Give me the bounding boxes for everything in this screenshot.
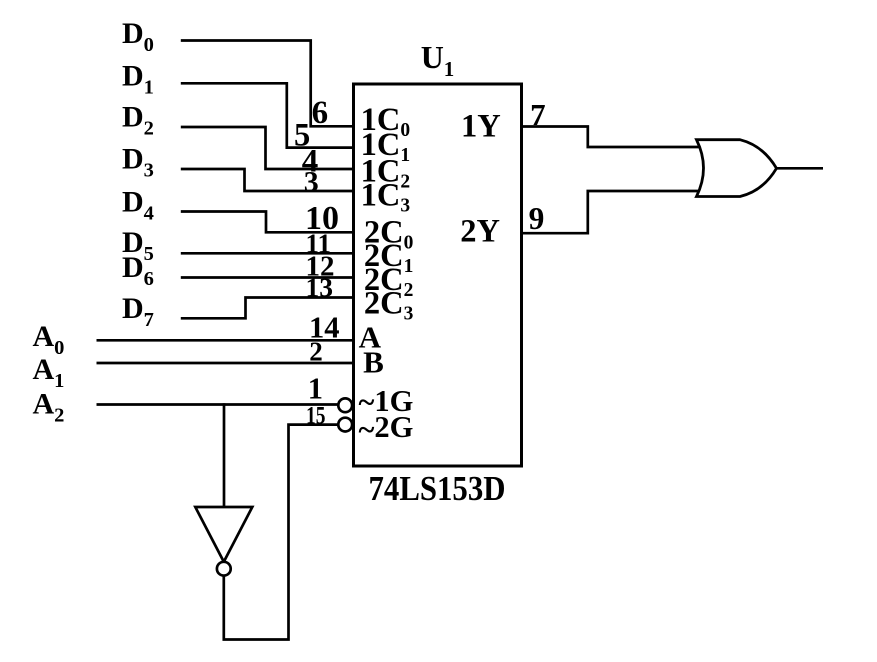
wire D2 to pin 4 [181,127,352,169]
svg-text:13: 13 [306,271,334,302]
wire D6 to pin 12 [181,276,352,279]
pin number 12 [306,250,335,282]
label D0 [122,17,154,56]
wire D7 to pin 13 [181,298,352,319]
pin number 13 [306,271,334,302]
svg-text:9: 9 [529,201,545,236]
svg-text:B: B [363,345,384,380]
pin name B [363,345,384,380]
OR gate U3 [697,140,777,197]
pin number 11 [306,229,332,259]
pin number 3 [304,166,319,199]
pin number 14 [309,311,340,345]
pin number 6 [312,95,329,131]
pin number 5 [294,118,310,154]
svg-text:2Y: 2Y [460,214,500,250]
pin name ~1G [359,384,414,419]
svg-text:~2G: ~2G [359,410,414,447]
pin number 15 [306,403,326,430]
label A0 [33,320,65,359]
svg-text:7: 7 [530,97,546,132]
wire D4 to pin 10 [181,212,352,233]
svg-text:1Y: 1Y [461,108,501,144]
pin number 10 [305,200,339,237]
label D5 [122,226,154,265]
pin name 2C3 [364,286,414,325]
svg-text:74LS153D: 74LS153D [369,469,506,508]
label A2 [33,387,65,426]
wire D5 to pin 11 [181,252,352,255]
label D7 [122,292,154,331]
pin number 1 [308,372,323,406]
wire A0 to pin 14 [97,339,353,342]
svg-text:6: 6 [312,95,329,131]
label D3 [122,143,154,182]
label D4 [122,185,154,224]
pin name ~2G [359,410,414,447]
pin number 2 [309,337,323,367]
pin name 1C2 [361,154,410,193]
pin ~2G bubble [338,418,352,432]
wire D0 to pin 6 [181,41,352,127]
label A1 [33,353,65,392]
svg-text:1: 1 [308,372,323,406]
pin name 1C3 [361,178,411,217]
wire 1Y to OR gate top input [523,127,706,148]
wire OR gate output [775,167,823,170]
pin number 9 [529,201,545,236]
pin name A [359,320,382,355]
pin name 1C1 [361,127,410,166]
pin name 2C2 [364,262,413,301]
pin number 4 [302,143,319,179]
label D6 [122,251,154,290]
wire A2 to pin 1 [97,403,339,406]
wire inverter output to pin 15 [224,425,338,640]
IC U1 body 74LS153D [354,84,522,466]
wire D1 to pin 5 [181,83,352,147]
designator U1 [421,39,455,81]
pin name 2Y [460,214,500,250]
label D2 [122,101,154,140]
wire A1 to pin 2 [97,362,353,365]
pin name 1Y [461,108,501,144]
label D1 [122,59,154,98]
wire D3 to pin 3 [181,169,352,191]
svg-text:2: 2 [309,337,323,367]
part value 74LS153D [369,469,506,508]
pin name 2C0 [364,214,413,253]
pin name 1C0 [361,102,410,141]
svg-text:3: 3 [304,166,319,199]
pin ~1G bubble [338,398,352,412]
pin name 2C1 [364,238,413,277]
svg-text:15: 15 [306,403,326,430]
inverter output bubble [217,562,231,576]
wire A2 branch to inverter input [223,403,226,507]
wire 2Y to OR gate bottom input [523,191,706,233]
inverter U2 triangle [195,507,252,562]
pin number 7 [530,97,546,132]
